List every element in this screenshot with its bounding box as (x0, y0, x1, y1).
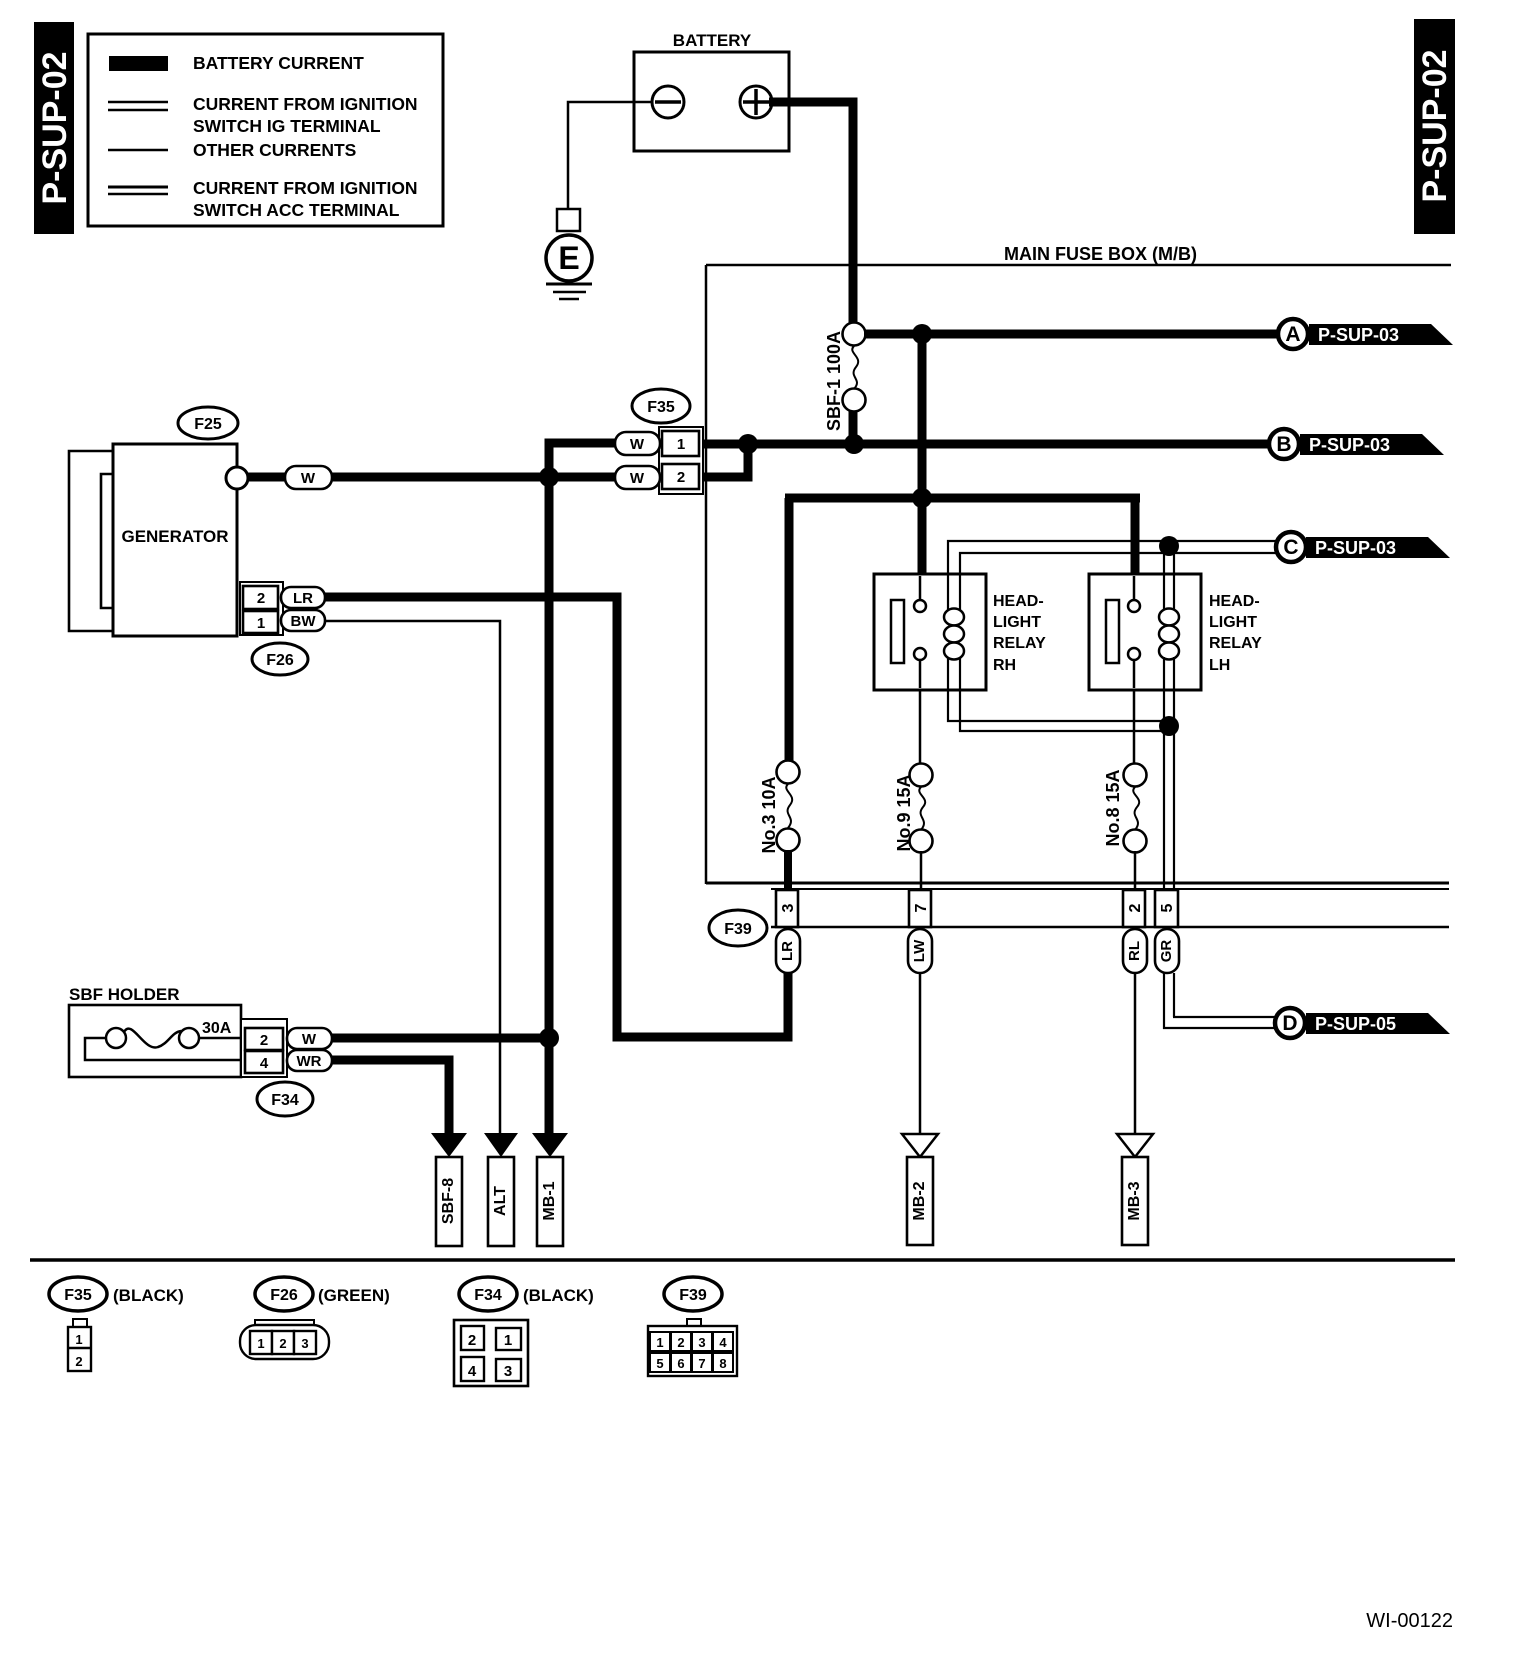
svg-text:RELAY: RELAY (1209, 635, 1262, 652)
page label P-SUP-02 right (1414, 19, 1455, 234)
svg-text:F35: F35 (647, 399, 675, 416)
svg-text:SBF-1 100A: SBF-1 100A (824, 331, 844, 431)
svg-text:BW: BW (291, 613, 317, 630)
fuse No.3 10A (777, 761, 800, 933)
svg-text:5: 5 (1159, 903, 1176, 912)
svg-text:P-SUP-02: P-SUP-02 (1416, 49, 1454, 202)
wire generator BW to ALT (322, 621, 500, 1136)
wire color label LR at F39 (776, 929, 800, 973)
terminal box MB-3 (1122, 1157, 1148, 1245)
relay LH label (1209, 593, 1262, 674)
svg-text:F35: F35 (64, 1287, 92, 1304)
wire RL to MB-3 (1134, 973, 1137, 1136)
arrow to MB-2 (902, 1134, 938, 1157)
svg-text:F26: F26 (266, 652, 294, 669)
svg-text:2: 2 (677, 469, 685, 486)
junction B line / F35 no.2 (738, 434, 758, 454)
fuse SBF-1 100A (843, 323, 866, 449)
wire F35 no.2 to B line (699, 444, 748, 477)
wire color label W at F34 (287, 1028, 332, 1049)
battery negative terminal (652, 86, 684, 118)
svg-text:GR: GR (1158, 940, 1175, 963)
legend F35 pin view (68, 1319, 91, 1371)
connector F35 housing (659, 427, 703, 494)
svg-text:P-SUP-03: P-SUP-03 (1315, 538, 1396, 558)
arrow to ALT (484, 1133, 518, 1157)
svg-text:D: D (1282, 1012, 1297, 1035)
battery (634, 52, 789, 151)
wire relay feed horizontal (battery current) (785, 494, 1140, 503)
svg-text:SWITCH ACC TERMINAL: SWITCH ACC TERMINAL (193, 200, 400, 220)
svg-text:F34: F34 (271, 1092, 299, 1109)
battery positive terminal (740, 86, 772, 118)
footer separator (30, 1258, 1455, 1262)
svg-text:30A: 30A (202, 1020, 232, 1037)
wire color label LR (281, 587, 325, 608)
wire branch to F35 no.1 (549, 443, 619, 477)
svg-text:CURRENT FROM IGNITION: CURRENT FROM IGNITION (193, 178, 418, 198)
arrow to MB-3 (1117, 1134, 1153, 1157)
svg-text:(GREEN): (GREEN) (318, 1286, 390, 1305)
legend connector F34 oval (459, 1277, 517, 1311)
svg-text:No.9 15A: No.9 15A (894, 774, 914, 851)
svg-text:MB-3: MB-3 (1126, 1181, 1143, 1220)
relay coil bottom link lower line (960, 690, 1169, 731)
svg-text:F25: F25 (194, 416, 222, 433)
svg-text:1: 1 (677, 436, 685, 453)
SBF holder box (69, 1005, 241, 1077)
svg-text:1: 1 (257, 615, 265, 632)
wire A line (battery current) (864, 330, 1277, 339)
svg-text:P-SUP-05: P-SUP-05 (1315, 1014, 1396, 1034)
svg-text:LW: LW (911, 939, 928, 962)
svg-text:2: 2 (257, 590, 265, 607)
svg-text:3: 3 (504, 1363, 512, 1380)
svg-text:7: 7 (913, 903, 930, 912)
svg-text:WI-00122: WI-00122 (1366, 1610, 1453, 1632)
wire C net branch to LH relay coil (1164, 542, 1174, 574)
connector F35 oval (632, 389, 690, 423)
wire color label RL at F39 (1123, 929, 1147, 973)
junction generator W / MB-1 (539, 467, 559, 487)
legend connector F35 oval (49, 1277, 107, 1311)
svg-text:(BLACK): (BLACK) (113, 1286, 184, 1305)
svg-text:2: 2 (468, 1332, 476, 1349)
svg-text:HEAD-: HEAD- (993, 593, 1044, 610)
F26 pin 2 (243, 586, 278, 609)
fuse No.8 15A (1124, 764, 1147, 933)
wire MB-1 vertical (battery current) (545, 477, 554, 1138)
svg-text:3: 3 (698, 1335, 705, 1350)
fuse No.9 15A (910, 764, 933, 933)
svg-text:GENERATOR: GENERATOR (121, 527, 228, 546)
svg-text:6: 6 (677, 1356, 684, 1371)
legend box (88, 34, 443, 226)
junction B line / SBF-1 (844, 434, 864, 454)
svg-text:C: C (1283, 536, 1298, 559)
generator mounting bracket (69, 451, 113, 631)
junction on A line (912, 324, 932, 344)
svg-text:MAIN FUSE BOX (M/B): MAIN FUSE BOX (M/B) (1004, 244, 1197, 264)
svg-text:No.3 10A: No.3 10A (759, 776, 779, 853)
F39 pin 3 (776, 890, 798, 927)
connector F34 housing (241, 1019, 287, 1077)
page label P-SUP-02 left (34, 22, 74, 234)
svg-text:W: W (630, 436, 645, 453)
svg-text:2: 2 (260, 1032, 268, 1049)
svg-text:F39: F39 (724, 921, 752, 938)
junction W / MB-1 (539, 1028, 559, 1048)
wire color label WR at F34 (287, 1050, 332, 1071)
svg-text:RH: RH (993, 657, 1016, 674)
terminal box ALT (488, 1157, 514, 1246)
junction relay feed / RH relay (912, 488, 932, 508)
svg-text:No.8 15A: No.8 15A (1103, 769, 1123, 846)
svg-text:W: W (630, 470, 645, 487)
wire GR net to D (1163, 973, 1275, 1029)
wire color label GR at F39 (1155, 929, 1179, 973)
svg-text:3: 3 (301, 1336, 308, 1351)
wire color label W at generator (285, 466, 332, 489)
svg-text:F39: F39 (679, 1287, 707, 1304)
svg-text:LIGHT: LIGHT (993, 614, 1041, 631)
svg-text:3: 3 (780, 903, 797, 912)
wire color label BW (281, 610, 325, 631)
svg-text:4: 4 (719, 1335, 727, 1350)
wire B line (battery current) (700, 440, 1268, 449)
wire feed down to LH relay (1131, 498, 1140, 574)
wire color label W at F35 pin 1 (615, 432, 660, 455)
F35 pin 1 (662, 431, 699, 456)
node C arrow P-SUP-03 (1276, 532, 1450, 562)
wire C net lower line (960, 553, 1276, 574)
wire feed down to fuse No.3 (785, 498, 794, 762)
wire generator LR to fuse No.3 (battery current) (320, 597, 788, 1037)
terminal box MB-1 (537, 1157, 563, 1246)
F34 pin 2 (245, 1028, 283, 1050)
svg-text:BATTERY: BATTERY (673, 31, 752, 50)
svg-text:OTHER CURRENTS: OTHER CURRENTS (193, 140, 356, 160)
F34 pin 4 (245, 1051, 283, 1073)
F39 connector strip (771, 889, 1449, 927)
relay coil bottom link upper line (948, 690, 1169, 721)
svg-text:2: 2 (279, 1336, 286, 1351)
terminal box MB-2 (907, 1157, 933, 1245)
svg-text:E: E (558, 240, 579, 276)
connector F34 oval (257, 1082, 313, 1116)
svg-text:B: B (1276, 433, 1291, 456)
generator W terminal (226, 467, 248, 489)
svg-text:MB-2: MB-2 (911, 1181, 928, 1220)
wire LW to MB-2 (919, 973, 922, 1136)
legend F34 pin view (454, 1320, 528, 1386)
svg-text:ALT: ALT (492, 1186, 509, 1216)
svg-text:F26: F26 (270, 1287, 298, 1304)
generator GEN1 (113, 444, 237, 636)
svg-text:1: 1 (504, 1332, 512, 1349)
svg-text:P-SUP-02: P-SUP-02 (36, 51, 74, 204)
wire F34 W to MB-1 (battery current) (332, 1034, 550, 1043)
connector F39 oval (709, 910, 767, 946)
svg-text:2: 2 (75, 1354, 82, 1369)
svg-text:F34: F34 (474, 1287, 502, 1304)
wire color label LW at F39 (908, 929, 932, 973)
svg-text:8: 8 (719, 1356, 726, 1371)
svg-text:5: 5 (656, 1356, 663, 1371)
headlight relay LH (1089, 574, 1201, 690)
wire C net upper line (948, 541, 1276, 574)
svg-text:CURRENT FROM IGNITION: CURRENT FROM IGNITION (193, 94, 418, 114)
arrow to MB-1 (532, 1133, 568, 1157)
main fuse box outline (706, 265, 1451, 884)
legend F26 pin view (240, 1320, 329, 1359)
relay RH label (993, 593, 1046, 674)
wire battery positive to SBF-1 (battery current) (769, 102, 853, 323)
F39 pin 7 (909, 890, 931, 927)
ground symbol (546, 284, 592, 299)
svg-text:MB-1: MB-1 (541, 1181, 558, 1220)
SBF holder internal fuse 30A (85, 1028, 243, 1060)
F39 pin 5 (1155, 890, 1178, 927)
connector F25 oval (178, 407, 238, 439)
svg-text:WR: WR (297, 1053, 322, 1070)
junction coil bottom net (1159, 716, 1179, 736)
ground node E (546, 235, 592, 281)
arrow to SBF-8 (431, 1133, 467, 1157)
svg-text:P-SUP-03: P-SUP-03 (1309, 435, 1390, 455)
svg-text:(BLACK): (BLACK) (523, 1286, 594, 1305)
wire battery negative to ground (568, 102, 652, 210)
wire RH contact to fuse No.9 (919, 690, 922, 764)
legend F39 pin view (648, 1319, 737, 1376)
svg-text:BATTERY CURRENT: BATTERY CURRENT (193, 53, 364, 73)
svg-text:W: W (301, 470, 316, 487)
connector F26 oval (252, 643, 308, 675)
svg-text:LR: LR (293, 590, 313, 607)
svg-text:2: 2 (677, 1335, 684, 1350)
node A arrow P-SUP-03 (1278, 319, 1453, 349)
svg-text:W: W (302, 1031, 317, 1048)
svg-text:4: 4 (260, 1055, 269, 1072)
wire F34 WR to SBF-8 (battery current) (332, 1060, 449, 1136)
F26 pin 1 (243, 611, 278, 633)
wire generator W to F35 no.2 (244, 473, 619, 482)
wire LH contact to fuse No.8 (1133, 690, 1136, 764)
svg-text:SBF HOLDER: SBF HOLDER (69, 985, 180, 1004)
svg-text:RELAY: RELAY (993, 635, 1046, 652)
svg-text:2: 2 (1127, 903, 1144, 912)
connector F26 housing (240, 582, 283, 635)
svg-text:LIGHT: LIGHT (1209, 614, 1257, 631)
svg-text:SBF-8: SBF-8 (440, 1178, 457, 1224)
junction C net (1159, 536, 1179, 556)
node D arrow P-SUP-05 (1275, 1008, 1450, 1038)
ground connector box (557, 209, 580, 231)
wire vertical feed from A line to relay feed (918, 334, 927, 574)
svg-text:SWITCH IG TERMINAL: SWITCH IG TERMINAL (193, 116, 381, 136)
svg-text:1: 1 (656, 1335, 663, 1350)
headlight relay RH (874, 574, 986, 690)
legend connector F39 oval (664, 1277, 722, 1311)
legend connector F26 oval (255, 1277, 313, 1311)
svg-text:LR: LR (779, 941, 796, 961)
svg-text:7: 7 (698, 1356, 705, 1371)
wire GR net down from LH coil (1164, 690, 1174, 890)
svg-text:LH: LH (1209, 657, 1230, 674)
svg-text:4: 4 (468, 1363, 477, 1380)
svg-text:A: A (1285, 323, 1300, 346)
terminal box SBF-8 (436, 1157, 462, 1246)
svg-text:P-SUP-03: P-SUP-03 (1318, 325, 1399, 345)
svg-text:HEAD-: HEAD- (1209, 593, 1260, 610)
node B arrow P-SUP-03 (1269, 429, 1444, 459)
svg-text:1: 1 (75, 1332, 82, 1347)
svg-text:1: 1 (257, 1336, 264, 1351)
F39 pin 2 (1123, 890, 1145, 927)
F35 pin 2 (662, 464, 699, 489)
wire color label W at F35 pin 2 (615, 466, 660, 489)
svg-text:RL: RL (1126, 941, 1143, 961)
